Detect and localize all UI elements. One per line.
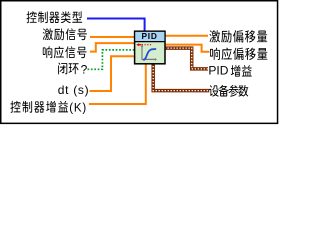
wire: response signal (orange) step into icon left (90, 43, 136, 52)
label: closed loop? (58, 63, 78, 75)
wire: closed loop? (boolean, green dashed) into icon left (88, 50, 137, 69)
wire: PID gains output (cluster, brown dotted) (165, 48, 209, 69)
label: device parameters (209, 85, 248, 97)
wire: excitation offset output (orange) (165, 35, 209, 37)
wire: response offset output (orange) (165, 45, 210, 52)
label: controller gain (K) (10, 101, 68, 113)
svg-text:?: ? (81, 62, 88, 76)
svg-text:PID: PID (208, 64, 228, 78)
border frame (1, 1, 278, 124)
icon graph: axes (142, 46, 155, 59)
svg-text:(K): (K) (69, 103, 87, 115)
wire: controller type (enum, blue) from label to icon top (87, 19, 145, 32)
wire: controller gain (K) (orange) into icon bottom (89, 63, 146, 104)
icon graph: red setpoint arrow (136, 43, 139, 46)
wire: excitation signal (orange) into icon left (90, 36, 136, 38)
label: PID gains (CJK part) (231, 65, 252, 77)
svg-text:PID: PID (141, 31, 157, 41)
PID VI icon (135, 31, 165, 64)
label: controller type (27, 11, 83, 23)
wire: dt (s) (orange) into icon left (90, 56, 137, 91)
label: excitation offset (210, 30, 268, 42)
label: response signal (43, 46, 87, 58)
wire: device parameters output (cluster, brown dotted) (153, 63, 209, 91)
svg-text:dt (s): dt (s) (58, 83, 90, 97)
label: excitation signal (43, 28, 87, 40)
icon graph: blue response curve (143, 49, 156, 60)
label: response offset (210, 48, 267, 60)
